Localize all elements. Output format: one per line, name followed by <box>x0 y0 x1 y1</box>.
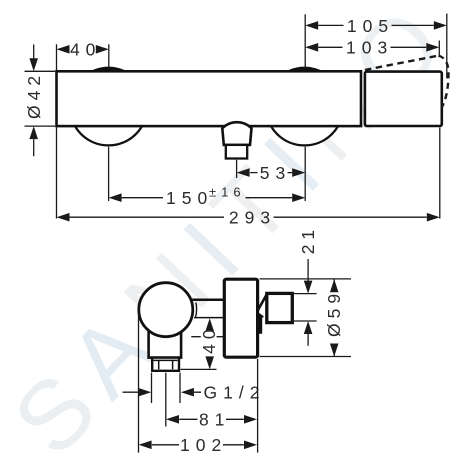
wall union <box>267 293 293 322</box>
body circle (side) <box>139 283 193 337</box>
svg-text:Ø42: Ø42 <box>24 71 44 119</box>
union top/bottom stubs <box>292 294 316 321</box>
svg-text:103: 103 <box>346 38 393 58</box>
dashed lever raised line <box>365 56 439 70</box>
dim 40 ext lines <box>57 44 109 70</box>
dim 105 line <box>318 24 434 26</box>
svg-text:40: 40 <box>199 324 219 353</box>
dim 105 arrows <box>305 21 318 30</box>
escutcheon circle left <box>70 68 148 146</box>
svg-text:Ø59: Ø59 <box>324 289 344 337</box>
dim 103 ext line <box>438 41 440 58</box>
dim 293 arrows <box>57 213 70 222</box>
dim 53 arrows <box>237 168 250 177</box>
escutcheon circle right <box>266 68 344 146</box>
circle bottom ext line <box>191 336 225 338</box>
dim G1/2 line + arrows <box>123 391 202 393</box>
escutcheon (side) <box>224 279 257 357</box>
dim 40 (side) arrows <box>205 318 214 331</box>
nipple bottom ext line <box>181 368 217 370</box>
nipple thread lines <box>154 360 178 369</box>
dim 150 line <box>122 197 293 199</box>
dim 102 line + arrows <box>152 444 244 446</box>
dim 293 line <box>70 216 427 218</box>
dim Ø42 ext lines <box>25 71 56 126</box>
dim 21 leader + arrows <box>307 259 309 281</box>
dim 103 line <box>318 46 426 48</box>
outlet dome <box>222 122 251 145</box>
dim 53 ext lines <box>237 147 306 201</box>
svg-text:53: 53 <box>260 163 291 183</box>
dim 293 ext lines <box>57 128 440 219</box>
svg-text:81: 81 <box>199 410 230 430</box>
svg-text:293: 293 <box>229 208 276 228</box>
dashed lever tip arc <box>439 56 449 108</box>
dim 105 ext lines <box>305 14 447 79</box>
arm flange arc <box>196 303 197 317</box>
dim 150 ext line <box>108 147 110 201</box>
dim 81 line + arrows <box>179 418 244 420</box>
outlet nipple (top view) <box>226 145 247 159</box>
escutcheon top lens left <box>91 68 127 72</box>
dim 53 line <box>250 172 292 174</box>
102 left ext line <box>138 308 140 453</box>
dim Ø42 arrows <box>33 45 35 59</box>
dim 150 arrows <box>109 193 122 202</box>
81/102 right ext line <box>257 359 259 453</box>
dim 40 arrows <box>57 45 70 54</box>
G1/2 ext lines <box>152 373 181 427</box>
escutcheon top/bottom ext lines <box>260 279 352 357</box>
dim 103 arrows <box>305 43 318 52</box>
arm to wall <box>192 299 225 302</box>
union small diagonal <box>258 313 264 317</box>
union black wedge <box>256 312 262 334</box>
body bar <box>57 71 362 126</box>
svg-text:150: 150 <box>166 188 213 208</box>
svg-text:G1/2: G1/2 <box>204 383 266 403</box>
nipple (side) <box>152 358 179 371</box>
handle lever <box>365 72 442 126</box>
svg-text:40: 40 <box>70 40 101 60</box>
svg-text:102: 102 <box>180 435 227 455</box>
svg-text:±16: ±16 <box>209 184 246 199</box>
escutcheon top lens right <box>287 68 323 72</box>
outlet block (side) <box>149 330 182 358</box>
svg-text:21: 21 <box>298 225 318 254</box>
union diagonal <box>258 294 267 310</box>
dim Ø59 line + arrows <box>333 279 335 356</box>
svg-text:105: 105 <box>347 16 394 36</box>
